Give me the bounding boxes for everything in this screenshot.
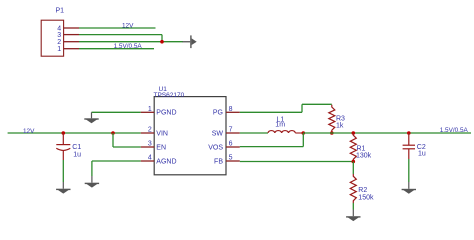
svg-text:EN: EN <box>156 144 166 151</box>
P1 pin 2 stub <box>63 41 79 43</box>
svg-text:1: 1 <box>57 46 61 53</box>
wire VOS horizontal <box>240 146 303 148</box>
svg-text:VIN: VIN <box>156 130 168 137</box>
P1 pin 1 stub <box>63 48 79 50</box>
svg-text:12V: 12V <box>23 128 35 135</box>
svg-text:1.5V/0.5A: 1.5V/0.5A <box>440 127 469 134</box>
IC U1 TPS62170 body <box>154 97 226 175</box>
wire SW to L1 <box>240 132 268 134</box>
wire PG to R3 <box>302 103 332 105</box>
connector P1 body <box>41 20 63 56</box>
svg-text:FB: FB <box>214 158 223 165</box>
ground below R2 <box>346 216 360 221</box>
wire C1 to ground <box>62 160 64 182</box>
junction FB/R1/R2 <box>352 160 356 164</box>
junction VIN/EN <box>111 131 115 135</box>
svg-text:C1: C1 <box>72 144 81 151</box>
resistor R3 <box>329 105 335 133</box>
wire 12V from P1 pin 4 <box>79 27 156 29</box>
junction C1/rail <box>62 131 66 135</box>
ground below C1 <box>56 189 70 194</box>
U1 pin 5 stub (right) <box>226 160 240 162</box>
U1 pin 3 stub (left) <box>141 146 154 148</box>
svg-text:1: 1 <box>148 106 152 113</box>
wire PGND <box>92 111 141 113</box>
wire 1.5V from P1 pin 1 <box>79 48 154 50</box>
inductor L1 <box>268 131 295 133</box>
resistor R1 <box>350 133 356 162</box>
capacitor C1 <box>56 133 70 160</box>
svg-text:3: 3 <box>148 141 152 148</box>
svg-text:1k: 1k <box>336 123 344 130</box>
svg-text:4: 4 <box>148 155 152 162</box>
wire EN jog vertical <box>112 133 114 147</box>
junction P1 pins 2-3 <box>160 40 164 44</box>
wire FB <box>240 161 353 163</box>
svg-text:8: 8 <box>229 106 233 113</box>
wire AGND <box>92 160 141 162</box>
capacitor C2 <box>403 133 415 159</box>
svg-text:1.5V/0.5A: 1.5V/0.5A <box>114 43 143 50</box>
wire VOS up <box>302 133 304 147</box>
U1 pin 7 stub (right) <box>226 132 240 134</box>
power port GND (right arrow) <box>183 35 197 48</box>
svg-text:6: 6 <box>229 141 233 148</box>
svg-text:5: 5 <box>229 155 233 162</box>
ground below AGND <box>85 183 99 188</box>
svg-text:SW: SW <box>212 130 224 137</box>
svg-text:150k: 150k <box>358 194 374 201</box>
ground below C2 <box>402 189 416 194</box>
junction R3/output <box>330 131 334 135</box>
U1 pin 4 stub (left) <box>141 160 154 162</box>
svg-text:AGND: AGND <box>156 158 176 165</box>
svg-text:PG: PG <box>213 110 223 117</box>
junction L1/VOS/output <box>302 131 306 135</box>
wire EN jog horizontal <box>113 146 141 148</box>
U1 pin 1 stub (left) <box>141 111 154 113</box>
U1 pin 6 stub (right) <box>226 146 240 148</box>
wire P1 pin 3 horizontal <box>79 34 162 36</box>
svg-text:P1: P1 <box>56 8 65 15</box>
svg-text:VOS: VOS <box>208 144 223 151</box>
svg-text:R2: R2 <box>358 187 367 194</box>
wire PG up jog <box>301 104 303 112</box>
wire 12V rail <box>8 132 141 134</box>
svg-text:R3: R3 <box>336 116 345 123</box>
svg-text:130k: 130k <box>356 153 372 160</box>
svg-text:2: 2 <box>148 127 152 134</box>
svg-text:TPS62170: TPS62170 <box>154 92 185 99</box>
wire R2 to ground <box>352 203 354 210</box>
wire P1 pin 3 down jog <box>161 35 163 42</box>
svg-text:7: 7 <box>229 127 233 134</box>
svg-text:1m: 1m <box>275 122 285 129</box>
svg-text:R1: R1 <box>357 145 366 152</box>
U1 pin 8 stub (right) <box>226 111 240 113</box>
ground below PGND <box>84 118 98 123</box>
svg-text:2: 2 <box>57 39 61 46</box>
svg-text:PGND: PGND <box>156 110 176 117</box>
L1 right lead <box>295 132 303 134</box>
P1 pin 3 stub <box>63 34 79 36</box>
P1 pin 4 stub <box>63 27 79 29</box>
wire PGND down <box>91 112 93 118</box>
wire R1/R2 link <box>352 162 354 175</box>
junction R1 top <box>352 131 356 135</box>
wire output 1.5V <box>303 132 471 134</box>
svg-text:12V: 12V <box>122 22 134 29</box>
resistor R2 <box>350 174 356 203</box>
U1 pin 2 stub (left) <box>141 132 154 134</box>
wire AGND down <box>91 161 93 176</box>
junction C2/output <box>407 131 411 135</box>
svg-text:3: 3 <box>57 32 61 39</box>
wire P1 pin 2 to ground <box>79 41 183 43</box>
wire PG horizontal <box>240 111 302 113</box>
wire C2 to ground <box>408 159 410 182</box>
svg-text:1u: 1u <box>418 151 426 158</box>
svg-text:1u: 1u <box>73 152 81 159</box>
